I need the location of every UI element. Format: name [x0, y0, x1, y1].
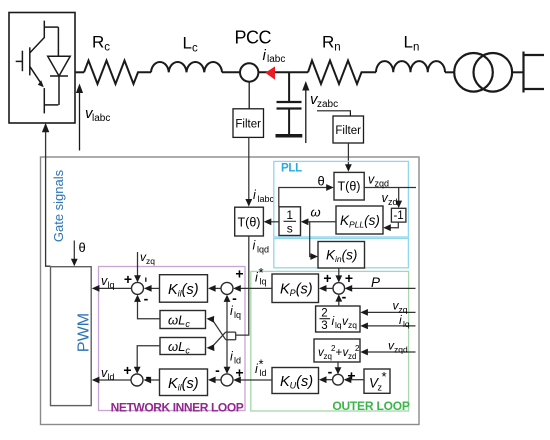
V_z* box — [364, 369, 390, 393]
wire sum2 to K_il1 — [214, 287, 221, 289]
diode D1 — [44, 27, 70, 105]
svg-text:ω: ω — [311, 205, 321, 220]
arrow v_labc — [79, 91, 81, 151]
wire T(theta)1 out v_zqd — [364, 187, 416, 189]
filter F1 — [233, 109, 264, 138]
svg-text:zd: zd — [388, 197, 398, 207]
svg-text:-1: -1 — [393, 210, 403, 222]
K_in(s) box — [318, 242, 365, 269]
svg-text:2: 2 — [321, 308, 327, 320]
wire Ln to transformer — [445, 71, 454, 73]
svg-text:-: - — [146, 369, 151, 385]
svg-text:zq: zq — [146, 256, 155, 266]
svg-text:-: - — [215, 362, 220, 378]
svg-text:z: z — [378, 383, 383, 393]
wire transformer to grid — [512, 71, 523, 73]
wire Filter2 down to T(theta)1 — [347, 143, 349, 166]
summing node P — [333, 283, 345, 295]
svg-text:*: * — [259, 357, 264, 372]
omega Lc box 2 — [160, 338, 206, 355]
svg-text:-: - — [232, 290, 237, 306]
wire omegaLc2 feedback to sum4 — [137, 346, 160, 368]
inductor Lc — [151, 62, 222, 72]
PWM box — [51, 267, 92, 406]
wire i_lqd from T(theta)2 down — [236, 236, 249, 335]
diagonal to omegaLc1 — [213, 320, 226, 340]
wire junction to Rn — [289, 71, 308, 73]
K_PLL(s) box — [336, 206, 383, 234]
wire sum V to K_U — [325, 379, 333, 381]
summing node 1 — [132, 282, 144, 294]
wire K_il2 to sum4 — [150, 379, 160, 381]
summing node 2 — [221, 282, 233, 294]
ground — [276, 134, 303, 138]
purple inner loop box — [99, 267, 246, 411]
wire sum to K_P — [325, 287, 333, 289]
svg-text:T(θ): T(θ) — [338, 180, 361, 194]
wire V_z* to sum V — [350, 379, 365, 381]
wire sum1 to PWM (v_lq) — [99, 287, 132, 289]
2/3 power calc box — [316, 306, 360, 332]
T(theta) box 1 — [334, 172, 364, 200]
K_U(s) box — [272, 368, 319, 394]
wire -1 to K_PLL — [389, 222, 398, 228]
svg-text:labc: labc — [267, 54, 285, 65]
svg-text:zq: zq — [348, 320, 357, 330]
wire K_PLL to 1/s (omega) — [307, 221, 336, 223]
svg-text:lq: lq — [234, 310, 241, 320]
wire K_in down to sum P — [338, 268, 340, 277]
wire omega branch to K_in — [310, 222, 312, 257]
grid symbol — [524, 52, 545, 93]
svg-text:Filter: Filter — [335, 125, 361, 137]
summing node 3 — [221, 374, 233, 386]
svg-text:PCC: PCC — [235, 28, 272, 48]
wire v_zq into sum1 — [137, 252, 139, 277]
wire theta to T(theta)1 — [279, 188, 328, 207]
svg-text:Kil(s): Kil(s) — [168, 282, 199, 299]
splitter fork — [226, 332, 236, 340]
wire v_zqd input — [367, 351, 416, 353]
svg-text:Kil(s): Kil(s) — [168, 376, 199, 393]
svg-text:PLL: PLL — [281, 163, 302, 175]
current arrow i_labc (red) — [265, 66, 275, 79]
filter F2 — [333, 116, 364, 143]
wire PCC to junction — [258, 71, 289, 73]
svg-text:lq: lq — [403, 319, 410, 329]
svg-text:zq: zq — [324, 352, 332, 361]
svg-text:zqd: zqd — [394, 345, 408, 355]
wire K_il1 to sum1 — [150, 287, 160, 289]
svg-text:zqd: zqd — [375, 179, 390, 189]
inductor Ln — [376, 61, 445, 72]
svg-text:-: - — [342, 289, 347, 305]
svg-text:lq: lq — [108, 280, 115, 290]
transistor Q1 (IGBT) — [16, 21, 59, 114]
transformer T1 — [454, 53, 493, 92]
wire Lc to PCC — [222, 71, 240, 73]
svg-text:2: 2 — [355, 344, 360, 353]
svg-text:s: s — [287, 222, 293, 236]
svg-text:Filter: Filter — [235, 119, 261, 131]
svg-text:-: - — [328, 364, 333, 380]
svg-text:3: 3 — [321, 320, 327, 332]
svg-text:+: + — [235, 365, 243, 381]
wire vmag down to sum V — [337, 362, 339, 369]
svg-text:+: + — [345, 270, 353, 286]
svg-text:KP(s): KP(s) — [280, 282, 313, 299]
wire vzabc tap to Filter2 — [317, 111, 350, 116]
wire Filter1 down to T(theta)2 — [248, 137, 250, 200]
wire sum3 to K_il2 — [214, 379, 221, 381]
wire converter to Rc — [75, 71, 84, 73]
svg-text:PWM: PWM — [76, 313, 93, 352]
-1 box — [391, 208, 406, 222]
wire K_U out to inner loop — [239, 379, 273, 381]
wire omegaLc1 feedback to sum1 — [138, 301, 161, 319]
wire P input — [352, 287, 416, 289]
svg-text:zabc: zabc — [317, 99, 338, 110]
capacitor C1 — [288, 72, 290, 102]
node PCC — [240, 63, 258, 81]
wire sum4 to PWM (v_ld) — [99, 379, 131, 381]
summing node V — [333, 374, 344, 385]
svg-text:θ: θ — [79, 240, 86, 255]
wire v_zq input — [367, 311, 416, 313]
diagonal to omegaLc2 — [213, 332, 226, 346]
svg-text:+: + — [124, 271, 132, 287]
K_il(s) top box — [160, 275, 208, 303]
wire 1/s to T(theta)2 — [270, 221, 280, 223]
i current vertical line — [226, 300, 228, 374]
PLL cyan box — [274, 161, 409, 237]
svg-text:labc: labc — [92, 113, 110, 124]
wire 2/3 up to sum P — [338, 300, 340, 306]
wire K_P out to inner loop — [239, 287, 273, 289]
svg-text:i: i — [399, 313, 402, 327]
svg-text:-: - — [144, 291, 149, 307]
wire v_zd down to -1 — [398, 188, 400, 203]
svg-text:lqd: lqd — [257, 245, 269, 255]
svg-text:KU(s): KU(s) — [280, 374, 313, 391]
svg-text:1: 1 — [286, 208, 293, 222]
svg-text:Gate signals: Gate signals — [51, 169, 66, 242]
svg-text:T(θ): T(θ) — [238, 216, 261, 230]
svg-text:NETWORK INNER LOOP: NETWORK INNER LOOP — [111, 401, 244, 415]
wire i_lq input — [367, 325, 416, 327]
gate signals wire — [46, 130, 51, 267]
integrator 1/s box — [279, 207, 301, 236]
svg-text:*: * — [382, 369, 387, 384]
summing node 4 — [131, 374, 143, 386]
svg-text:labc: labc — [258, 194, 275, 204]
omega Lc box 1 — [160, 311, 206, 329]
green outer loop box — [251, 271, 409, 411]
svg-text:zd: zd — [348, 352, 356, 361]
svg-text:ld: ld — [108, 372, 115, 382]
svg-text:*: * — [259, 265, 264, 280]
resistor Rn — [308, 61, 376, 85]
K_P(s) box — [272, 274, 319, 303]
svg-text:θ: θ — [318, 174, 325, 189]
theta arrow into PWM — [73, 241, 75, 261]
svg-text:P: P — [371, 275, 380, 290]
wire PCC down — [248, 82, 250, 109]
svg-text:+: + — [123, 362, 131, 378]
svg-text:lq: lq — [335, 320, 342, 330]
svg-text:Kin(s): Kin(s) — [326, 248, 357, 265]
svg-text:+: + — [323, 270, 331, 286]
converter U1 box — [9, 13, 75, 124]
voltage magnitude box — [314, 339, 360, 362]
resistor Rc — [84, 61, 151, 85]
T(theta) box 2 — [235, 207, 264, 236]
arrow v_zabc — [305, 89, 307, 144]
svg-text:+: + — [235, 266, 243, 282]
K_il(s) bottom box — [160, 369, 208, 396]
cyan box 2 — [274, 239, 409, 268]
svg-text:+: + — [336, 347, 343, 359]
svg-text:OUTER LOOP: OUTER LOOP — [332, 399, 410, 413]
outer control box — [41, 157, 420, 425]
